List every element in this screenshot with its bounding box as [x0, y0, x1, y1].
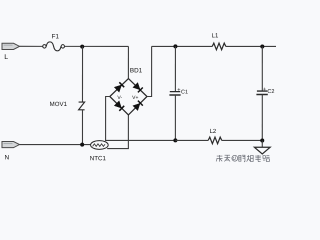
wire junction down to MOV1	[81, 46, 83, 102]
svg-text:BD1: BD1	[130, 67, 143, 74]
wire V+ rail right segment	[226, 45, 276, 47]
thermistor NTC1	[90, 141, 108, 163]
wire L to F1	[20, 45, 43, 47]
capacitor C2	[256, 46, 274, 140]
output arrow terminal	[254, 147, 270, 154]
svg-text:L1: L1	[212, 32, 219, 39]
svg-text:N: N	[5, 154, 10, 161]
wire NTC1 to bridge bottom	[107, 115, 128, 149]
svg-text:+: +	[263, 87, 266, 93]
svg-text:V+: V+	[132, 95, 138, 101]
diode D-br (bridge arm)	[133, 101, 143, 111]
terminal L	[2, 43, 20, 61]
junction C2 top	[260, 44, 264, 48]
capacitor C1	[169, 46, 188, 140]
diode D-bl (bridge arm)	[114, 101, 124, 111]
bridge rectifier BD1	[110, 67, 147, 115]
svg-text:C1: C1	[181, 90, 188, 96]
inductor L1	[212, 32, 226, 49]
svg-text:C2: C2	[267, 89, 274, 95]
wire MOV1 to N rail	[81, 110, 83, 145]
junction C1 bottom	[173, 138, 177, 142]
wire N to NTC1	[19, 144, 91, 146]
wire corner down to bridge top	[127, 46, 129, 78]
wire bridge left vertex to V- rail	[106, 96, 176, 140]
svg-text:F1: F1	[52, 33, 60, 40]
junction C1 top	[173, 44, 177, 48]
wire output node to arrow	[261, 140, 263, 147]
wire F1 to bridge top corner	[65, 45, 129, 47]
varistor MOV1	[50, 101, 85, 110]
junction C2 bottom / output node	[260, 138, 264, 142]
svg-text:V-: V-	[117, 95, 122, 101]
junction bottom N node	[80, 143, 84, 147]
svg-text:NTC1: NTC1	[90, 155, 107, 162]
diode D-tr (bridge arm)	[133, 83, 143, 93]
svg-text:MOV1: MOV1	[50, 101, 68, 108]
terminal N	[2, 142, 20, 162]
wire V- rail right segment	[222, 139, 262, 141]
diode D-tl (bridge arm)	[114, 82, 124, 92]
svg-text:L: L	[4, 54, 8, 61]
junction top L node	[80, 45, 84, 49]
fuse F1	[43, 33, 65, 51]
inductor L2	[208, 128, 222, 144]
svg-text:L2: L2	[210, 128, 217, 135]
watermark text	[216, 155, 269, 162]
wire V- rail mid segment	[175, 139, 208, 141]
wire bridge right vertex up to V+ rail	[147, 46, 152, 96]
wire V+ rail left segment	[152, 45, 213, 47]
